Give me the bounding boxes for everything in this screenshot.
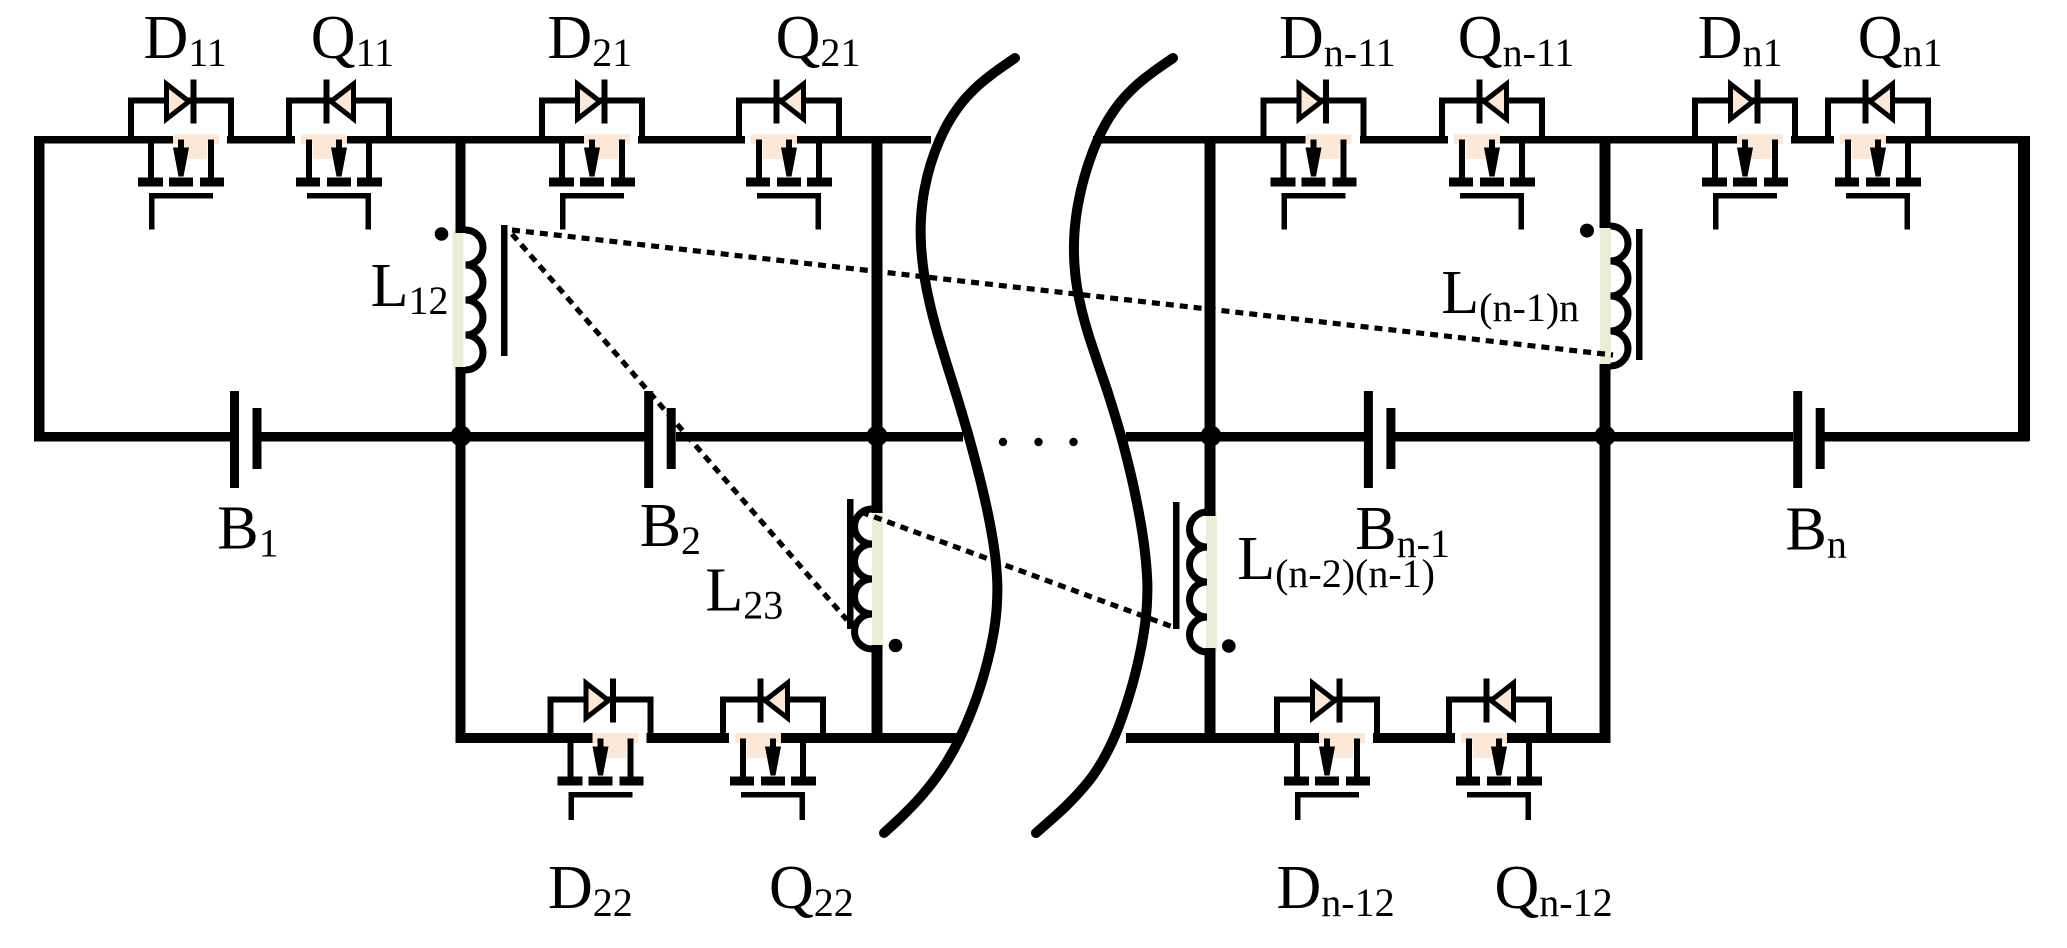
- svg-text:Dn-12: Dn-12: [1277, 854, 1395, 925]
- svg-text:Qn-11: Qn-11: [1458, 4, 1575, 75]
- svg-text:L23: L23: [705, 557, 783, 628]
- svg-text:L(n-1)n: L(n-1)n: [1441, 259, 1579, 330]
- svg-text:Q11: Q11: [311, 4, 394, 75]
- svg-text:B1: B1: [217, 495, 278, 566]
- svg-text:L12: L12: [371, 252, 449, 323]
- svg-text:Q21: Q21: [776, 4, 861, 75]
- svg-text:D22: D22: [548, 854, 633, 925]
- svg-text:Dn1: Dn1: [1698, 4, 1783, 75]
- svg-text:Qn-12: Qn-12: [1495, 854, 1613, 925]
- svg-text:Q22: Q22: [769, 854, 854, 925]
- svg-text:D11: D11: [144, 4, 227, 75]
- svg-text:Bn: Bn: [1786, 496, 1847, 567]
- svg-text:Dn-11: Dn-11: [1279, 4, 1396, 75]
- svg-text:B2: B2: [640, 492, 701, 563]
- svg-text:Qn1: Qn1: [1858, 4, 1943, 75]
- svg-text:D21: D21: [547, 4, 632, 75]
